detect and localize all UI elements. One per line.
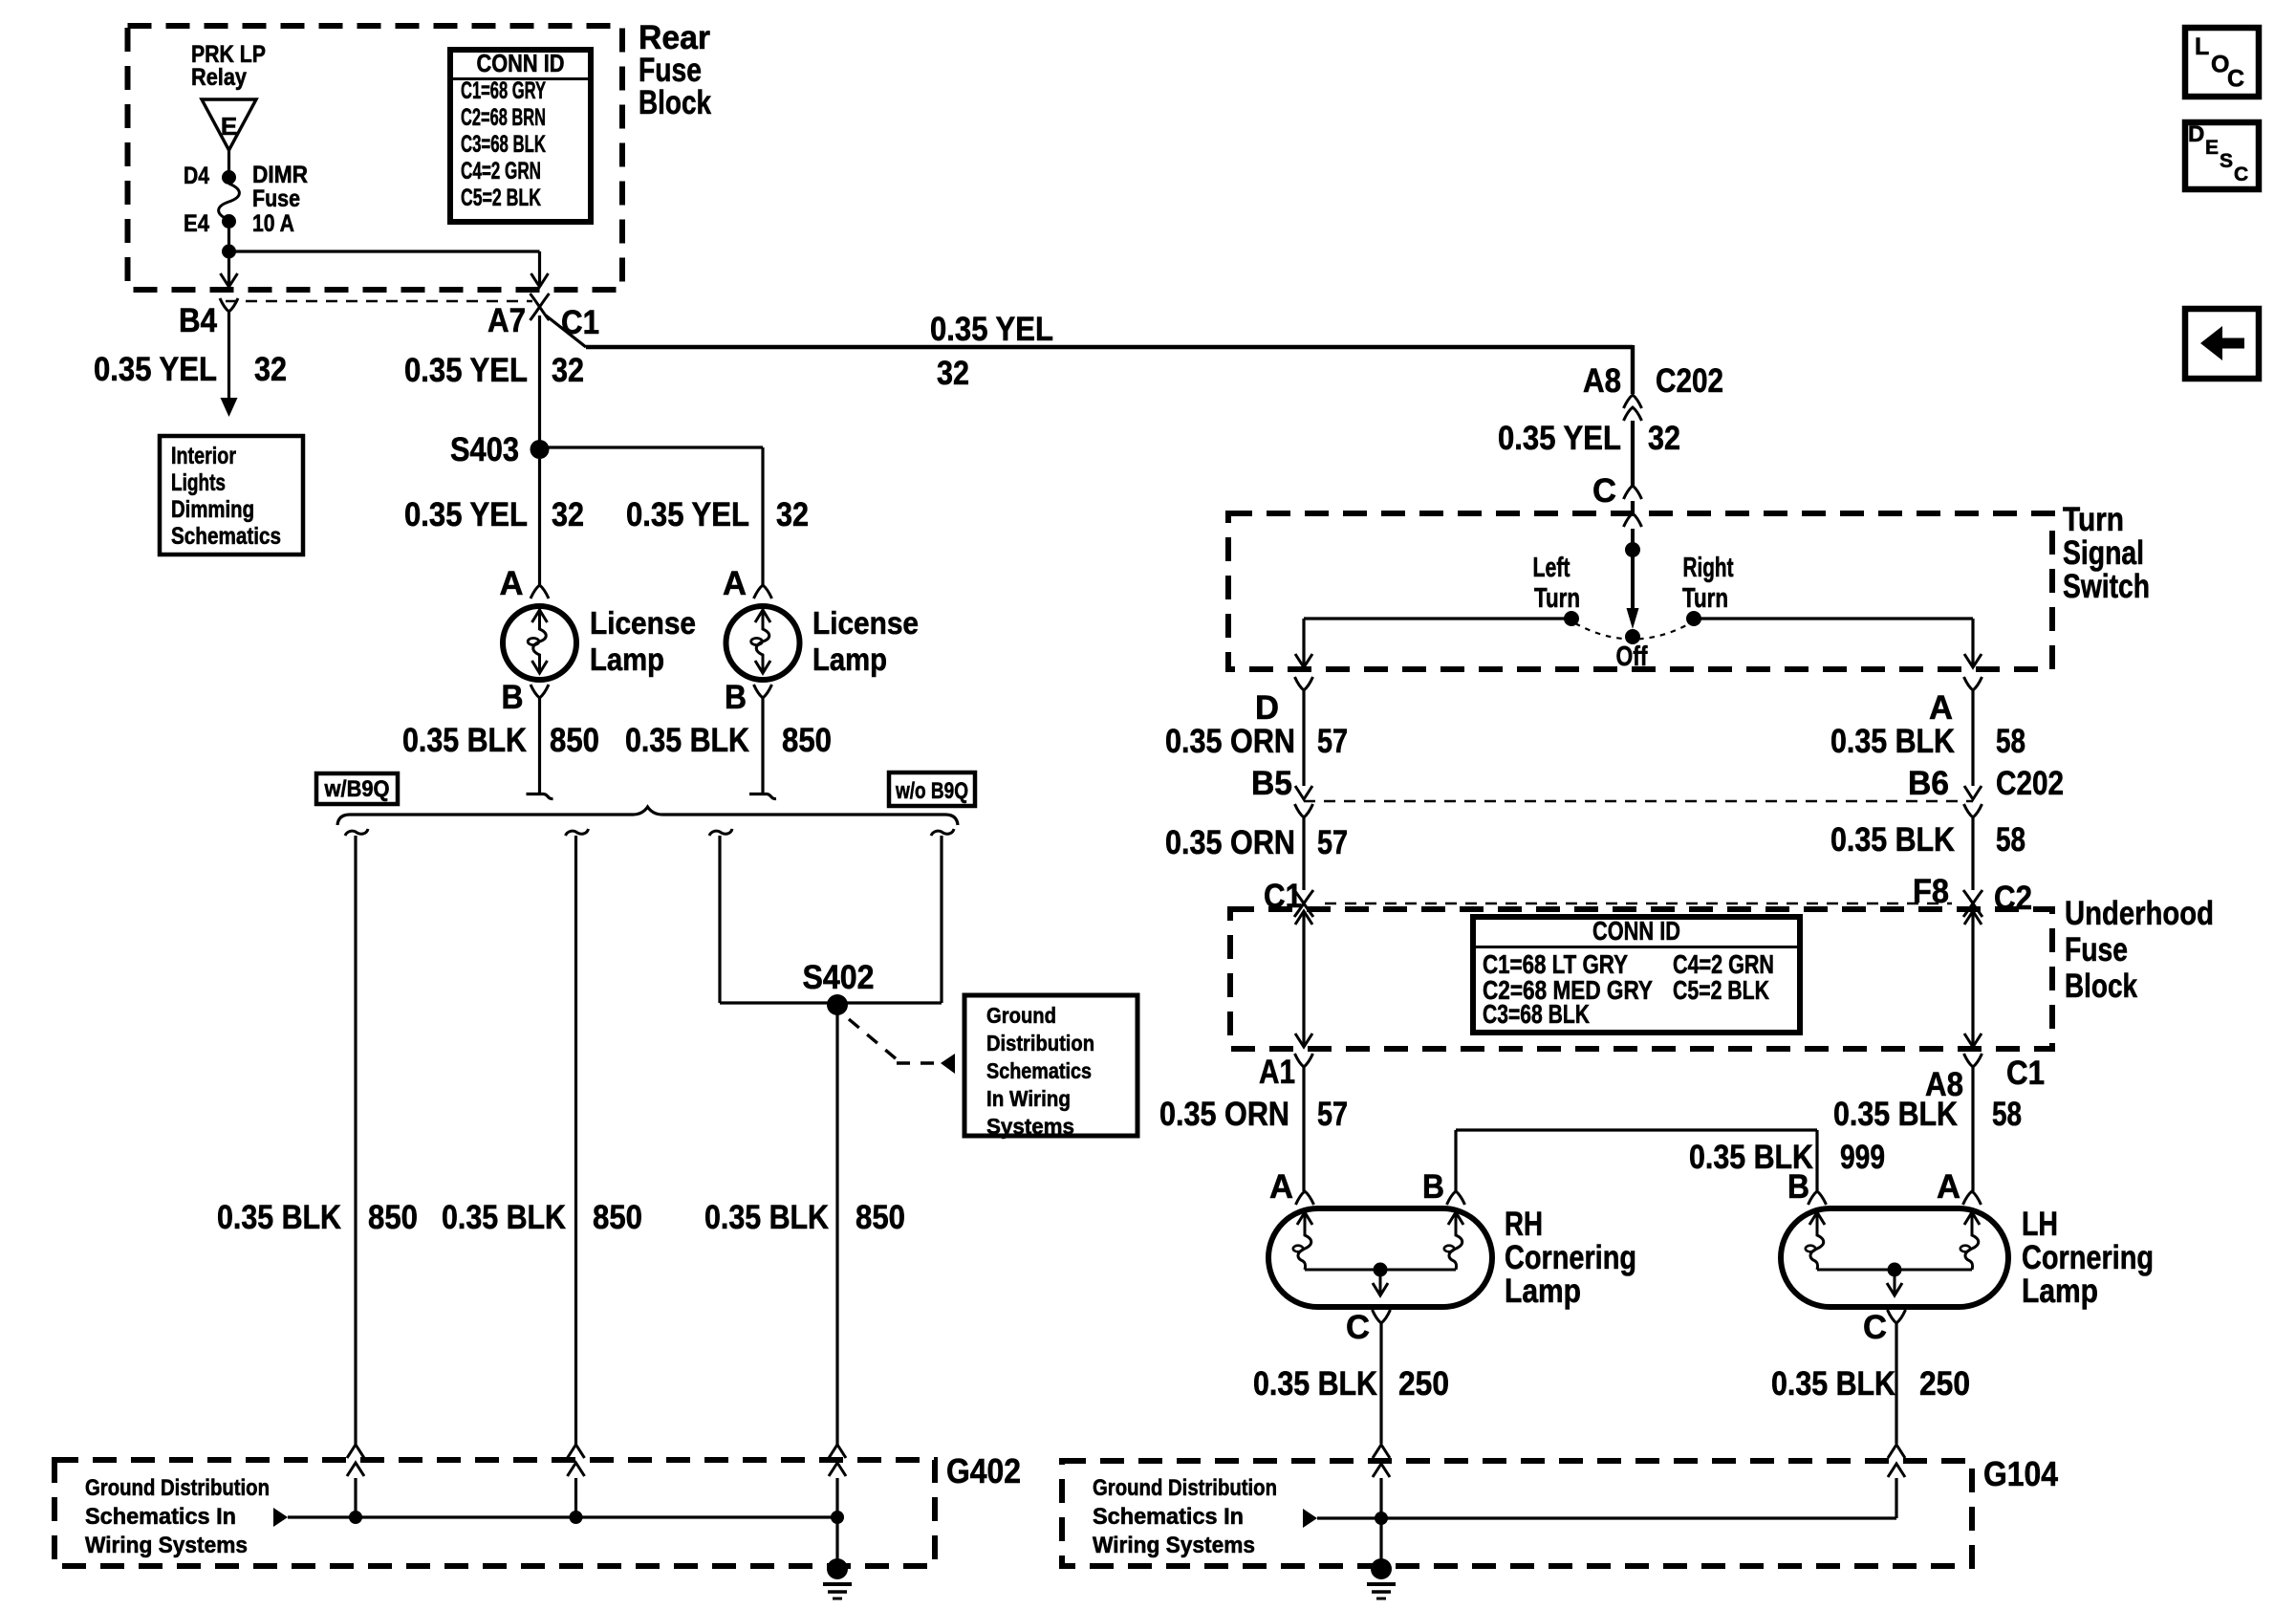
icon box back-arrow [2185, 309, 2259, 379]
lamp E4 LH Cornering Lamp housing [1781, 1208, 2008, 1307]
wire B6 down [1971, 817, 1974, 890]
svg-text:C5=2 BLK: C5=2 BLK [461, 185, 541, 211]
wire ground branch 2 curl top [566, 829, 589, 836]
svg-text:0.35 YEL: 0.35 YEL [1498, 420, 1621, 457]
svg-text:D4: D4 [184, 163, 209, 189]
wire left turn down [1302, 619, 1305, 666]
svg-text:32: 32 [254, 351, 287, 388]
svg-text:Dimming: Dimming [171, 496, 254, 523]
svg-text:0.35 BLK: 0.35 BLK [402, 722, 527, 759]
wire ground branch 3 curl top [709, 829, 732, 836]
svg-text:0.35 BLK: 0.35 BLK [217, 1199, 341, 1236]
svg-text:D: D [1255, 689, 1279, 727]
svg-text:Schematics: Schematics [171, 523, 281, 550]
svg-text:E4: E4 [184, 210, 209, 237]
chevron below G402 border x602 [568, 1463, 585, 1476]
ground hash3 G402 [833, 1598, 842, 1600]
svg-text:999: 999 [1840, 1139, 1885, 1176]
svg-text:850: 850 [368, 1199, 418, 1236]
svg-text:C: C [1346, 1309, 1370, 1346]
chevron below G104 border x1984 [1888, 1464, 1905, 1477]
svg-text:A: A [500, 565, 524, 602]
svg-text:E: E [2205, 137, 2219, 159]
wire S402 horizontal [720, 1001, 942, 1004]
Turn Signal Switch dashed box [1228, 513, 2052, 669]
connector B4 [220, 298, 238, 312]
svg-text:C202: C202 [1656, 362, 1723, 400]
junction g1 bus [349, 1511, 362, 1524]
Interior Lights Dimming Schematics box [160, 436, 303, 555]
wire lh into bus [1895, 1478, 1897, 1518]
svg-text:A: A [1929, 689, 1953, 727]
wire E3 RH lamp bus [1305, 1269, 1456, 1272]
Underhood Fuse Block dashed box [1230, 909, 2052, 1049]
svg-text:S: S [2220, 150, 2233, 172]
junction g2 bus [570, 1511, 583, 1524]
svg-text:In Wiring: In Wiring [986, 1086, 1071, 1111]
svg-text:250: 250 [1398, 1365, 1449, 1403]
wire drop to A7 [538, 251, 541, 286]
lamp E2 License Lamp circle [726, 606, 800, 680]
table separator (underhood) [1473, 946, 1800, 948]
connector A1 [1295, 1054, 1313, 1067]
svg-text:C3=68 BLK: C3=68 BLK [1483, 999, 1590, 1029]
svg-text:Block: Block [639, 84, 711, 121]
svg-text:Lights: Lights [171, 469, 226, 496]
svg-text:S403: S403 [450, 431, 519, 468]
icon back arrow [2200, 326, 2244, 360]
wire relay to D4 [227, 150, 230, 171]
arrow pass left top [1295, 911, 1312, 925]
svg-text:Off: Off [1616, 642, 1648, 672]
svg-text:57: 57 [1317, 824, 1348, 861]
fuse DIMR Fuse 10 A (wavy element) [219, 184, 240, 220]
chevron below G402 border x372 [347, 1463, 364, 1476]
arrow B5 [1295, 786, 1312, 799]
svg-text:C: C [2234, 163, 2248, 185]
splice S403 [531, 440, 550, 459]
connector line C202 [1304, 800, 1973, 803]
arrow right turn exit [1964, 654, 1982, 667]
arrow pass left bottom [1295, 1033, 1312, 1047]
svg-text:Schematics In: Schematics In [85, 1504, 236, 1530]
chevron inside switch top [1624, 513, 1642, 527]
svg-text:0.35 BLK: 0.35 BLK [625, 722, 749, 759]
svg-text:57: 57 [1317, 1096, 1348, 1133]
connector A8 chevron lower [1624, 407, 1642, 421]
icon box LOC [2185, 28, 2259, 97]
arrow B6 [1964, 786, 1982, 799]
svg-text:L: L [2195, 33, 2209, 60]
wire jumper left down [1454, 1130, 1457, 1191]
wire A7 down to S403 [538, 315, 541, 449]
CONN ID table (underhood) [1473, 917, 1800, 1033]
wire lamp1 B down [527, 698, 553, 799]
connector C1 underhood [1294, 890, 1313, 917]
svg-text:Block: Block [2065, 968, 2137, 1005]
wire S403 branch horizontal [540, 446, 764, 448]
connector A7 C1 [531, 294, 550, 320]
wire E3 RH lamp to C [1379, 1270, 1382, 1295]
wire long 0.35 YEL to C202 [586, 345, 1633, 349]
wire jumper B-B horizontal [1456, 1128, 1817, 1131]
wire C into switch [1631, 501, 1635, 513]
svg-text:B: B [725, 679, 747, 716]
arrow E4 LH lamp to C [1887, 1283, 1902, 1295]
wire rh into bus [1379, 1478, 1382, 1562]
wire B4 down [227, 312, 230, 398]
ground hash1 G402 [823, 1582, 852, 1586]
wire C rh down [1379, 1323, 1382, 1444]
wire ground branch 1 curl top [345, 829, 368, 836]
wire ground branch 4 curl top [931, 829, 954, 836]
arrow pass right top [1964, 911, 1982, 925]
arrow to Interior Lights [221, 398, 238, 417]
svg-text:0.35 YEL: 0.35 YEL [404, 352, 528, 389]
wire right turn down [1971, 619, 1974, 666]
ground hash2 G104 [1372, 1590, 1391, 1594]
svg-text:w/o B9Q: w/o B9Q [895, 778, 968, 804]
svg-text:32: 32 [552, 496, 584, 533]
connector B lamp1 [531, 685, 549, 698]
connector B lamp2 [754, 685, 772, 698]
svg-text:Lamp: Lamp [2022, 1273, 2098, 1310]
svg-text:B4: B4 [179, 302, 217, 339]
arrow exit B4 [221, 273, 238, 287]
svg-text:A1: A1 [1259, 1054, 1295, 1091]
svg-text:0.35 ORN: 0.35 ORN [1165, 723, 1295, 760]
svg-text:0.35 YEL: 0.35 YEL [404, 496, 528, 533]
svg-text:58: 58 [1992, 1096, 2022, 1133]
svg-text:32: 32 [1648, 420, 1680, 457]
wire to ground G402 [835, 1517, 838, 1562]
svg-text:250: 250 [1919, 1365, 1970, 1403]
svg-text:C: C [1592, 472, 1616, 510]
lamp E1 filament [533, 609, 547, 673]
connector B6 female [1964, 804, 1982, 817]
svg-text:S402: S402 [803, 959, 875, 996]
ground hash3 G104 [1376, 1598, 1386, 1600]
lamp E4 LH coil element [1965, 1212, 1979, 1270]
svg-text:C: C [1863, 1309, 1887, 1346]
ground G402 dashed box [54, 1460, 935, 1566]
contact Left Turn [1564, 611, 1579, 626]
svg-text:0.35 BLK: 0.35 BLK [1771, 1365, 1895, 1403]
svg-text:0.35 YEL: 0.35 YEL [94, 351, 217, 388]
wire left turn horizontal [1304, 617, 1571, 620]
arrow pass right bottom [1964, 1033, 1982, 1047]
svg-text:Systems: Systems [986, 1114, 1074, 1139]
svg-text:850: 850 [782, 722, 832, 759]
svg-text:Wiring Systems: Wiring Systems [85, 1533, 248, 1558]
connector A switch [1964, 677, 1982, 690]
svg-text:0.35 BLK: 0.35 BLK [1833, 1096, 1958, 1133]
connector B5 female [1295, 804, 1313, 817]
connector line C1-C2 [1325, 903, 1952, 905]
svg-text:Distribution: Distribution [986, 1031, 1094, 1055]
svg-text:Relay: Relay [191, 64, 247, 91]
lamp E1 License Lamp circle [503, 606, 576, 680]
note box Ground Distribution (S402) [964, 995, 1137, 1136]
svg-text:Turn: Turn [2063, 501, 2124, 538]
connector line C1 (rear) [226, 300, 532, 303]
svg-text:Lamp: Lamp [812, 642, 887, 677]
connector C chevron [1624, 486, 1642, 499]
wire g2 into bus [574, 1478, 577, 1517]
svg-text:G402: G402 [946, 1451, 1021, 1490]
svg-text:0.35 ORN: 0.35 ORN [1159, 1096, 1289, 1133]
svg-text:w/B9Q: w/B9Q [324, 776, 390, 802]
svg-text:A8: A8 [1583, 362, 1621, 400]
wire drop to B4 [227, 251, 230, 286]
option box w/B9Q [316, 773, 398, 804]
svg-text:LH: LH [2022, 1206, 2058, 1243]
svg-text:57: 57 [1317, 723, 1348, 760]
svg-text:Turn: Turn [1682, 583, 1728, 614]
wire A8 to C [1631, 421, 1635, 486]
wire E4 LH lamp bus [1817, 1269, 1972, 1272]
svg-text:0.35 BLK: 0.35 BLK [1830, 821, 1955, 859]
wire lamp2 B down [749, 698, 776, 799]
svg-text:0.35 BLK: 0.35 BLK [442, 1199, 566, 1236]
junction E4 LH lamp [1888, 1263, 1902, 1277]
svg-text:Fuse: Fuse [252, 185, 300, 212]
svg-text:32: 32 [937, 355, 969, 392]
svg-text:850: 850 [593, 1199, 642, 1236]
table title separator [450, 77, 591, 80]
svg-text:Cornering: Cornering [1505, 1239, 1636, 1276]
svg-text:Wiring Systems: Wiring Systems [1093, 1533, 1255, 1558]
wire S403 down left lamp [538, 459, 541, 585]
wire branch down right lamp [761, 447, 764, 585]
svg-text:Interior: Interior [171, 443, 236, 469]
connector A lamp2 [754, 585, 772, 598]
CONN ID table (rear fuse block) [450, 50, 591, 222]
connector C1 right [1964, 1054, 1982, 1067]
svg-text:Schematics: Schematics [986, 1058, 1092, 1083]
lamp E4 LH coil element [1810, 1212, 1824, 1270]
relay K (PRK LP Relay) triangle [202, 99, 256, 150]
wire S402 down [835, 1013, 838, 1447]
svg-text:Turn: Turn [1534, 583, 1580, 614]
svg-text:Lamp: Lamp [590, 642, 664, 677]
leader dashed to Ground Distribution note [849, 1019, 941, 1063]
svg-text:C1=68 GRY: C1=68 GRY [461, 77, 546, 104]
wire G402 bus [288, 1515, 837, 1518]
svg-text:RH: RH [1505, 1206, 1543, 1243]
wire jumper right down [1815, 1130, 1818, 1191]
connector C rh [1373, 1310, 1391, 1323]
svg-text:Right: Right [1683, 553, 1734, 583]
svg-text:32: 32 [776, 496, 809, 533]
connector A lamp1 [531, 585, 549, 598]
Rear Fuse Block dashed box [128, 26, 623, 290]
wire C1 down [1971, 1067, 1974, 1191]
wire g1 into bus [354, 1478, 357, 1517]
svg-text:C1: C1 [2006, 1055, 2045, 1092]
lamp E2 filament [756, 609, 769, 673]
arrow E3 RH lamp to C [1373, 1283, 1388, 1295]
arrow exit A7 [531, 273, 549, 287]
svg-text:0.35 ORN: 0.35 ORN [1165, 824, 1295, 861]
wire E4 down [227, 221, 230, 251]
junction rh bus [1375, 1512, 1388, 1525]
contact Off pivot [1625, 629, 1640, 644]
svg-text:Ground: Ground [986, 1003, 1056, 1028]
svg-text:C: C [2227, 66, 2244, 93]
svg-text:0.35 BLK: 0.35 BLK [1830, 723, 1955, 760]
svg-text:DIMR: DIMR [252, 162, 308, 188]
option box w/o B9Q [889, 772, 975, 806]
svg-text:58: 58 [1996, 821, 2025, 859]
svg-text:B: B [1787, 1168, 1809, 1206]
wire A1 down [1302, 1067, 1305, 1191]
svg-text:58: 58 [1996, 723, 2025, 760]
svg-text:D: D [2188, 121, 2204, 147]
ground hash1 G104 [1367, 1582, 1396, 1586]
ground G104 dashed box [1062, 1461, 1972, 1566]
connector F8 C2 [1963, 890, 1982, 917]
svg-text:C3=68 BLK: C3=68 BLK [461, 131, 546, 158]
svg-text:A: A [1269, 1168, 1293, 1206]
svg-text:C202: C202 [1996, 765, 2064, 802]
connector D [1295, 677, 1313, 690]
chevron above G402 border x602 [568, 1445, 585, 1458]
svg-text:10 A: 10 A [252, 210, 294, 237]
lamp E3 RH coil element [1298, 1212, 1311, 1270]
svg-text:C1: C1 [561, 304, 599, 341]
svg-text:850: 850 [550, 722, 599, 759]
wire pass-through right [1971, 911, 1974, 1047]
svg-text:C2=68 BRN: C2=68 BRN [461, 104, 546, 131]
chevron below G402 border x876 [829, 1463, 846, 1476]
svg-text:Signal: Signal [2063, 534, 2144, 572]
svg-text:Underhood: Underhood [2065, 895, 2214, 932]
svg-text:32: 32 [552, 352, 584, 389]
terminal E4 junction [222, 214, 236, 228]
ground stud G104 [1371, 1558, 1392, 1579]
wire pass-through left [1302, 911, 1305, 1047]
svg-text:CONN ID: CONN ID [477, 49, 565, 77]
svg-text:B6: B6 [1908, 765, 1949, 802]
wire ground branch 2 [574, 836, 577, 1447]
svg-text:CONN ID: CONN ID [1592, 916, 1680, 946]
connector A rh [1296, 1191, 1314, 1205]
arrow left turn exit [1295, 654, 1312, 667]
arrow into G402 bus [273, 1508, 288, 1527]
svg-text:Cornering: Cornering [2022, 1239, 2154, 1276]
wire A down [1971, 690, 1974, 786]
svg-text:B5: B5 [1251, 765, 1292, 802]
svg-text:Ground Distribution: Ground Distribution [85, 1475, 270, 1501]
lamp E3 RH coil element [1449, 1212, 1462, 1270]
arrow into G104 bus [1303, 1509, 1317, 1528]
svg-text:C5=2 BLK: C5=2 BLK [1673, 975, 1769, 1005]
connector C lh [1888, 1310, 1906, 1323]
splice S402 [827, 994, 848, 1015]
svg-text:Ground Distribution: Ground Distribution [1093, 1475, 1277, 1501]
svg-text:A: A [723, 565, 747, 602]
svg-text:Lamp: Lamp [1505, 1273, 1581, 1310]
wire right turn horizontal [1694, 617, 1973, 620]
leader arrowhead [941, 1054, 955, 1074]
chevron below G104 border x1445 [1373, 1464, 1390, 1477]
chevron above G104 border x1984 [1888, 1445, 1905, 1458]
ground stud G402 [827, 1558, 848, 1579]
svg-text:A: A [1937, 1168, 1960, 1206]
junction below E4 [222, 245, 236, 259]
chevron above G104 border x1445 [1373, 1445, 1390, 1458]
wire ground branch 3 [718, 836, 721, 1003]
junction S402 bus [831, 1511, 844, 1524]
wiper dashed arc [1575, 623, 1690, 640]
wire ground branch 1 [354, 836, 357, 1447]
svg-text:Fuse: Fuse [2065, 931, 2128, 968]
chevron above G402 border x876 [829, 1445, 846, 1458]
wire B5 down [1302, 817, 1305, 890]
arrow switch wiper [1627, 608, 1639, 629]
terminal D4 junction [222, 170, 236, 185]
connector B lh [1809, 1191, 1827, 1205]
connector A8 chevron upper [1624, 395, 1642, 408]
wire D down [1302, 690, 1305, 786]
junction E3 RH lamp [1374, 1263, 1388, 1277]
svg-text:0.35 BLK: 0.35 BLK [1253, 1365, 1377, 1403]
wire C lh down [1895, 1323, 1897, 1444]
wire E4 LH lamp to C [1894, 1270, 1896, 1295]
junction switch common [1625, 542, 1640, 557]
connector B rh [1447, 1191, 1465, 1205]
svg-text:Schematics In: Schematics In [1093, 1504, 1244, 1530]
connector A lh [1963, 1191, 1982, 1205]
svg-text:License: License [812, 605, 919, 641]
svg-text:License: License [590, 605, 696, 641]
lamp E3 RH Cornering Lamp housing [1268, 1208, 1492, 1307]
contact Right Turn [1686, 611, 1701, 626]
icon box DESC [2185, 122, 2259, 189]
wire diagonal C1 branch [546, 315, 586, 347]
brace (harness variants) [337, 807, 958, 825]
svg-text:Left: Left [1533, 553, 1570, 583]
wire junction to C1 drop [229, 250, 540, 252]
svg-text:0.35 YEL: 0.35 YEL [626, 496, 749, 533]
svg-text:G104: G104 [1983, 1454, 2058, 1493]
svg-text:E: E [221, 112, 237, 141]
wire G104 bus [1317, 1516, 1896, 1519]
wire ground branch 4 [940, 836, 942, 1003]
wire switch common [1631, 529, 1635, 614]
wire drop to A8 [1631, 345, 1635, 394]
chevron above G402 border x372 [347, 1445, 364, 1458]
svg-text:850: 850 [856, 1199, 905, 1236]
svg-text:0.35 YEL: 0.35 YEL [930, 311, 1053, 348]
svg-text:C4=2 GRN: C4=2 GRN [461, 158, 541, 185]
svg-text:B: B [1422, 1168, 1444, 1206]
svg-text:Switch: Switch [2063, 568, 2150, 605]
svg-text:0.35 BLK: 0.35 BLK [704, 1199, 829, 1236]
wire S402 into bus [835, 1478, 838, 1517]
svg-text:A7: A7 [487, 302, 526, 339]
ground hash2 G402 [828, 1590, 847, 1594]
svg-text:B: B [502, 679, 524, 716]
